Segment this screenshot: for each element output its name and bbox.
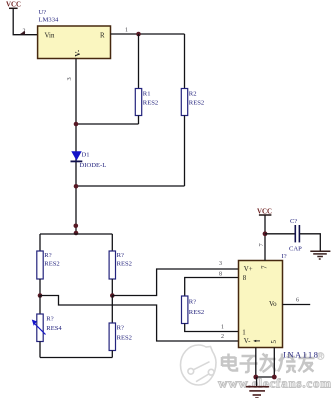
junction dot bridge left node [38, 293, 43, 298]
svg-text:1: 1 [242, 329, 246, 336]
svg-text:3: 3 [219, 261, 222, 267]
wire pin1 net [111, 33, 185, 35]
svg-text:V-: V- [74, 49, 82, 57]
svg-text:D1: D1 [82, 152, 90, 159]
wire C? to ground [300, 234, 320, 251]
wire bridge left node to op-amp pin2 [40, 296, 239, 342]
watermark chinese 友 [299, 354, 315, 373]
svg-text:RES2: RES2 [117, 261, 132, 268]
watermark chinese 电 [222, 354, 237, 371]
potentiometer R? RES4 (bridge lower-left) [32, 296, 63, 358]
junction dot bridge tee [74, 231, 79, 236]
svg-text:R: R [100, 33, 105, 40]
wire R2 bottom return [76, 185, 185, 187]
wire op-amp bottom pins to ground rail [256, 348, 274, 378]
svg-text:RES2: RES2 [44, 261, 59, 268]
svg-text:RES2: RES2 [117, 334, 132, 341]
svg-text:U?: U? [39, 9, 47, 16]
ground (top right) [310, 251, 330, 259]
wire bridge bottom [40, 357, 112, 359]
svg-text:RES2: RES2 [189, 309, 204, 316]
svg-text:V+: V+ [244, 266, 253, 273]
wire bridge top [40, 233, 112, 235]
junction dot bottom right pin [272, 375, 277, 380]
svg-text:7: 7 [262, 265, 269, 269]
junction dot bottom left pin [253, 375, 258, 380]
svg-text:2: 2 [221, 334, 224, 340]
wire VCC stem to U? pin2 [13, 8, 37, 34]
svg-text:R?: R? [117, 252, 124, 259]
watermark logo [181, 345, 217, 385]
resistor R? RES2 (gain feedback) [182, 296, 205, 324]
wire feedback resistor bottom to pin1 [185, 324, 239, 332]
junction dot pin7/cap [263, 231, 268, 236]
wire R1 bottom to V- node [76, 123, 139, 125]
watermark chinese 发 [260, 354, 276, 373]
watermark chinese 子 [240, 356, 258, 372]
svg-text:R1: R1 [143, 90, 151, 97]
svg-text:CAP: CAP [289, 246, 302, 253]
svg-text:Vin: Vin [45, 33, 55, 40]
resistor R2 [181, 34, 204, 186]
junction dot bridge right node [110, 293, 115, 298]
svg-text:RES2: RES2 [143, 99, 158, 106]
svg-text:V-: V- [244, 338, 251, 345]
wire op-amp pin8 + feedback resistor top [185, 278, 239, 297]
resistor R? (bridge upper-right) RES2 [109, 234, 132, 296]
wire bridge right node to op-amp pin3 [112, 269, 238, 296]
svg-text:R2: R2 [189, 90, 197, 97]
svg-text:5: 5 [271, 340, 278, 344]
resistor R1 [135, 34, 158, 124]
svg-text:Vo: Vo [269, 301, 277, 308]
capacitor C? CAP [289, 218, 302, 252]
diode D1 [71, 151, 107, 169]
svg-text:6: 6 [296, 298, 299, 304]
pin 2 arrowhead [20, 31, 26, 35]
ground (below op-amp) [246, 377, 269, 398]
svg-text:DIODE-L: DIODE-L [80, 162, 107, 169]
svg-text:RES2: RES2 [189, 99, 204, 106]
wire pin3 vertical [75, 59, 77, 235]
junction dot above bridge [74, 224, 79, 229]
power VCC (top left) [6, 2, 21, 9]
svg-text:8: 8 [219, 271, 222, 277]
svg-text:LM334: LM334 [39, 17, 59, 24]
svg-text:R?: R? [189, 299, 196, 306]
junction dot at R1 return [74, 122, 79, 127]
svg-text:I?: I? [282, 253, 287, 260]
power VCC (top right) [257, 209, 272, 216]
watermark chinese 烧 [278, 354, 296, 373]
svg-text:INA118: INA118 [283, 350, 319, 359]
svg-text:1: 1 [125, 28, 128, 34]
resistor R? (bridge upper-left) RES2 [37, 234, 60, 296]
regulator U? LM334 [38, 9, 111, 59]
junction dot at R1 top [136, 32, 141, 37]
svg-text:R?: R? [44, 252, 51, 259]
wire pin6 output [283, 304, 311, 306]
svg-text:1: 1 [221, 325, 224, 331]
svg-text:C?: C? [290, 218, 297, 225]
wire pin7 to VCC [264, 215, 266, 261]
svg-text:RES4: RES4 [46, 325, 62, 332]
svg-text:R?: R? [117, 325, 124, 332]
svg-text:R?: R? [46, 315, 53, 322]
wire junction to C? [265, 233, 295, 235]
op-amp I? INA118 [239, 253, 320, 359]
svg-text:7: 7 [258, 243, 265, 247]
watermark (R) [317, 353, 324, 360]
svg-text:3: 3 [66, 77, 73, 80]
junction dot below diode [74, 184, 79, 189]
svg-text:8: 8 [243, 275, 247, 282]
resistor R? (bridge lower-right) RES2 [109, 296, 132, 358]
